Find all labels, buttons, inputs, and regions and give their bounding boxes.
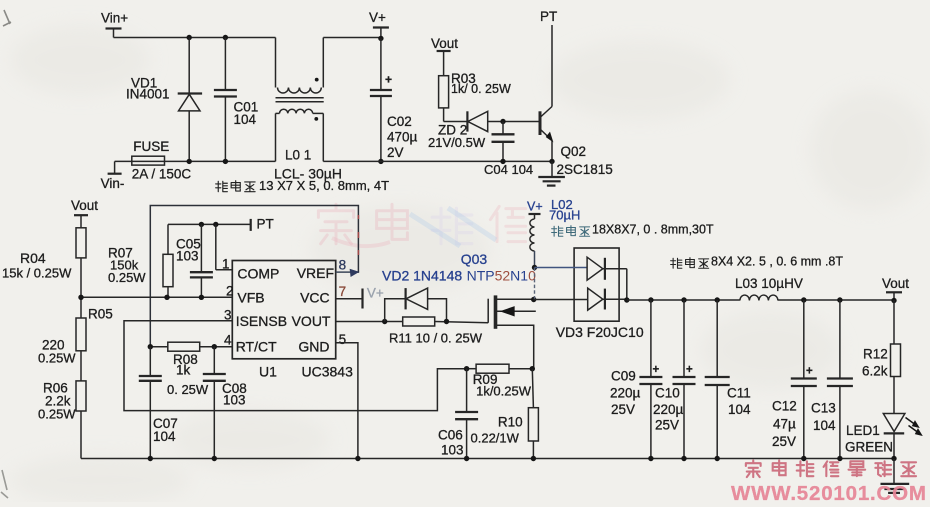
- svg-text:25V: 25V: [772, 434, 796, 449]
- inductor L02 70uH: [530, 219, 535, 268]
- svg-text:R11 10 / 0. 25W: R11 10 / 0. 25W: [389, 331, 483, 346]
- pin 1 COMP: [216, 257, 233, 272]
- terminal Vout (aux): [431, 36, 458, 76]
- ground (Q02 emitter): [538, 159, 565, 186]
- node bottom rail C08: [212, 456, 217, 461]
- svg-text:U1: U1: [259, 364, 277, 380]
- wire top input rail: [114, 37, 276, 39]
- svg-text:FUSE: FUSE: [133, 139, 169, 154]
- resistor R06 2.2k 0.25W: [38, 381, 86, 459]
- label Q03: [461, 251, 488, 267]
- resistor R08 1k 0.25W: [150, 342, 232, 397]
- svg-text:470µ: 470µ: [387, 130, 418, 145]
- svg-text:Q03: Q03: [461, 251, 488, 267]
- capacitor C01 104: [214, 38, 258, 162]
- svg-text:PT: PT: [257, 217, 274, 232]
- label NTP52N10: [467, 268, 536, 284]
- svg-text:21V/0.5W: 21V/0.5W: [428, 135, 486, 150]
- svg-text:GREEN: GREEN: [845, 440, 893, 455]
- capacitor C12 47u 25V: [772, 297, 817, 458]
- op-amp U1 UC3843 (PWM controller IC): [232, 261, 353, 380]
- wire PT/COMP top: [168, 224, 251, 254]
- fuse FUSE 2A/150C: [132, 139, 192, 182]
- wire VFB row: [81, 296, 232, 298]
- svg-text:8X4 X2. 5 , 0. 6 mm .8T: 8X4 X2. 5 , 0. 6 mm .8T: [711, 255, 843, 269]
- scan artifact bottom-left: [1, 470, 8, 498]
- node gate drive left: [382, 319, 387, 324]
- resistor R05 220 0.25W: [38, 307, 113, 381]
- svg-text:V+: V+: [527, 200, 543, 214]
- node C02 top: [378, 36, 383, 41]
- node C05 bottom: [199, 295, 204, 300]
- wire bottom input rail (left of L01): [115, 160, 276, 162]
- svg-text:L0 1: L0 1: [285, 148, 311, 163]
- capacitor C08 103: [203, 347, 247, 459]
- svg-text:V+: V+: [369, 10, 386, 25]
- svg-text:220µ: 220µ: [610, 386, 641, 401]
- node bottom rail C12: [801, 456, 806, 461]
- svg-text:4: 4: [224, 333, 232, 348]
- watermark (bottom right): [731, 460, 927, 505]
- svg-text:0.25W: 0.25W: [38, 407, 76, 422]
- svg-text:Vin+: Vin+: [101, 11, 128, 26]
- wire bottom input rail (right of L01): [323, 160, 552, 162]
- svg-text:Vout: Vout: [882, 276, 909, 291]
- node C01 bottom: [223, 159, 228, 164]
- svg-text:8: 8: [339, 258, 347, 273]
- wire drain to L02: [534, 268, 536, 300]
- svg-text:5: 5: [339, 332, 347, 347]
- svg-text:VD2 1N4148: VD2 1N4148: [382, 268, 462, 284]
- pin 8 VREF: [336, 258, 352, 273]
- node bottom rail C07: [148, 456, 153, 461]
- node Q03 drain: [531, 297, 536, 302]
- node bottom rail C13: [837, 456, 842, 461]
- terminal V+ (top): [369, 10, 389, 38]
- wire VOUT gate drive: [336, 322, 489, 323]
- capacitor C06 103: [438, 369, 478, 459]
- node bottom rail LED1: [891, 456, 896, 461]
- label VD2 1N4148: [382, 268, 462, 284]
- terminal Vin+: [101, 11, 128, 38]
- node COMP drop: [213, 222, 218, 227]
- svg-text:WWW.520101.COM: WWW.520101.COM: [731, 482, 927, 502]
- node C05 top: [199, 222, 204, 227]
- svg-text:0.22/1W: 0.22/1W: [471, 431, 520, 446]
- svg-text:C06: C06: [438, 428, 463, 443]
- transformer L01 (common-mode choke): [274, 38, 342, 182]
- label L02: [549, 197, 580, 223]
- svg-text:1k: 1k: [176, 363, 191, 378]
- capacitor C09 220u 25V: [610, 297, 662, 458]
- resistor R07 150k 0.25W: [108, 246, 173, 298]
- resistor R11 10/0.25W: [389, 317, 483, 346]
- pin 7 VCC: [339, 284, 347, 299]
- svg-text:13 X7 X 5, 0. 8mm, 4T: 13 X7 X 5, 0. 8mm, 4T: [259, 178, 389, 193]
- svg-text:VFB: VFB: [237, 290, 264, 306]
- svg-text:2SC1815: 2SC1815: [557, 162, 613, 177]
- svg-text:2V: 2V: [387, 145, 404, 160]
- svg-text:0.25W: 0.25W: [108, 270, 146, 285]
- wire top rail right segment: [323, 37, 381, 39]
- svg-text:COMP: COMP: [237, 266, 279, 282]
- label core note L02: [552, 223, 714, 237]
- node VD1 bottom: [187, 159, 192, 164]
- ground (output): [881, 459, 910, 493]
- svg-text:6.2k: 6.2k: [862, 364, 888, 379]
- svg-text:UC3843: UC3843: [302, 364, 354, 380]
- svg-text:R10: R10: [498, 415, 523, 430]
- node R08 right (RT/CT): [212, 344, 217, 349]
- pin 4 RT/CT: [224, 333, 232, 348]
- wire COMP drop: [215, 224, 217, 269]
- svg-text:R04: R04: [20, 250, 46, 266]
- svg-text:VREF: VREF: [297, 265, 334, 281]
- svg-text:Vin-: Vin-: [101, 176, 125, 191]
- scan artifact top-left: [3, 10, 11, 26]
- svg-text:R05: R05: [88, 307, 113, 322]
- svg-text:+: +: [806, 366, 813, 378]
- svg-text:+: +: [686, 364, 693, 376]
- node ZD2/C04/Q02 base: [500, 119, 505, 124]
- wire GND pin5 drop: [336, 343, 358, 459]
- svg-text:1k/0.25W: 1k/0.25W: [476, 384, 532, 399]
- svg-text:104: 104: [153, 429, 176, 444]
- capacitor C13 104: [811, 297, 853, 458]
- capacitor C11 104: [705, 297, 751, 458]
- svg-text:+: +: [385, 73, 392, 87]
- svg-text:VCC: VCC: [300, 290, 330, 306]
- svg-text:70µH: 70µH: [549, 208, 580, 223]
- watermark (center, faint): [318, 204, 525, 246]
- diode VD3 F20JC10 (dual): [534, 248, 627, 321]
- svg-text:V+: V+: [367, 286, 384, 301]
- capacitor C07 104: [139, 347, 178, 459]
- svg-text:104: 104: [728, 402, 751, 417]
- terminal V+ (L02): [527, 200, 543, 220]
- node R09 left / C06: [464, 366, 469, 371]
- svg-text:NTP52N10: NTP52N10: [467, 268, 536, 284]
- wire output rail (left of L03): [627, 299, 740, 301]
- svg-text:R12: R12: [863, 347, 888, 362]
- svg-text:2A / 150C: 2A / 150C: [132, 167, 192, 182]
- node bottom rail R10: [531, 456, 536, 461]
- wire output rail (right of L03): [778, 299, 894, 301]
- svg-text:1k/ 0. 25W: 1k/ 0. 25W: [451, 82, 511, 96]
- node C01 top: [223, 35, 228, 40]
- node R07 bottom: [164, 295, 169, 300]
- svg-text:GND: GND: [298, 339, 329, 355]
- node VD3 cathode: [624, 297, 629, 302]
- svg-text:C13: C13: [811, 401, 836, 416]
- resistor R03 1k/0.25W: [439, 71, 511, 122]
- svg-text:VOUT: VOUT: [292, 313, 331, 329]
- svg-text:C12: C12: [772, 399, 797, 414]
- svg-text:47µ: 47µ: [773, 417, 796, 432]
- svg-text:C04 104: C04 104: [484, 162, 533, 177]
- terminal PT (top): [540, 9, 557, 24]
- svg-text:ISENSB: ISENSB: [236, 313, 287, 329]
- capacitor C04 104: [484, 122, 533, 178]
- svg-text:25V: 25V: [611, 402, 635, 417]
- svg-text:25V: 25V: [655, 418, 679, 433]
- svg-text:LED1: LED1: [846, 423, 880, 438]
- svg-text:PT: PT: [540, 9, 557, 24]
- terminal Vout (feedback): [71, 198, 98, 228]
- diode VD1 IN4001: [126, 38, 202, 162]
- node bottom rail GND pin5: [355, 456, 360, 461]
- svg-text:103: 103: [176, 249, 199, 264]
- label core note L03: [671, 255, 844, 269]
- label core note L01: [216, 178, 389, 193]
- svg-text:220µ: 220µ: [653, 402, 684, 417]
- node bottom rail C11: [715, 456, 720, 461]
- diode VD2 1N4148: [385, 288, 447, 321]
- node R11 right: [444, 319, 449, 324]
- resistor R04 15k/0.25W: [2, 228, 86, 318]
- svg-text:C02: C02: [387, 114, 412, 129]
- resistor R10 0.22/1W: [471, 369, 539, 459]
- svg-text:C10: C10: [655, 386, 680, 401]
- zener diode ZD2 21V/0.5W: [428, 111, 539, 150]
- transistor Q02 2SC1815: [540, 25, 613, 177]
- svg-text:RT/CT: RT/CT: [236, 339, 277, 355]
- resistor R09 1k/0.25W: [467, 364, 533, 398]
- LED LED1 GREEN: [845, 414, 921, 459]
- svg-text:0.25W: 0.25W: [38, 351, 76, 366]
- svg-text:104: 104: [234, 112, 257, 127]
- svg-text:2: 2: [226, 284, 234, 299]
- svg-text:C09: C09: [611, 369, 636, 384]
- transistor Q03 NTP52N10 (MOSFET): [488, 295, 536, 368]
- node bottom rail C06: [464, 456, 469, 461]
- node R08 left (VREF): [148, 344, 153, 349]
- capacitor C10 220u 25V: [653, 297, 696, 458]
- svg-text:Vout: Vout: [431, 36, 458, 51]
- svg-text:15k / 0.25W: 15k / 0.25W: [2, 266, 72, 281]
- node bottom rail C09: [648, 456, 653, 461]
- svg-text:Vout: Vout: [71, 198, 98, 213]
- pin 3 ISENSB: [224, 308, 232, 323]
- terminal PT (COMP): [251, 217, 274, 232]
- label VD3 F20JC10: [556, 324, 644, 340]
- svg-text:VD3 F20JC10: VD3 F20JC10: [556, 324, 644, 340]
- node R09 right / R10 top: [530, 366, 535, 371]
- pin 2 VFB: [226, 284, 234, 299]
- wire ISENSB loop: [124, 321, 467, 411]
- resistor R12 6.2k: [862, 300, 901, 414]
- inductor L03 10uHV: [735, 276, 803, 301]
- terminal V+ (VCC): [363, 286, 384, 309]
- svg-text:103: 103: [441, 443, 464, 458]
- svg-text:Q02: Q02: [561, 144, 587, 159]
- node VD1 top: [187, 35, 192, 40]
- svg-text:104: 104: [813, 418, 836, 433]
- svg-text:0. 25W: 0. 25W: [167, 382, 209, 397]
- terminal Vout (output): [882, 276, 909, 303]
- wire bottom ground rail: [81, 458, 894, 460]
- svg-text:C11: C11: [727, 386, 751, 401]
- node L02/VD3 anode: [532, 265, 537, 270]
- wire VREF loop (pin 8 to R08): [150, 206, 358, 347]
- scan mottling: [0, 0, 1, 1]
- node bottom rail C10: [681, 456, 686, 461]
- node VFB divider: [78, 295, 83, 300]
- wire VCC pin7: [336, 298, 362, 300]
- capacitor C05 103: [176, 224, 213, 297]
- svg-text:103: 103: [223, 393, 246, 408]
- terminal Vin-: [101, 161, 125, 191]
- pin 5 GND: [339, 332, 347, 347]
- svg-text:L03 10µHV: L03 10µHV: [735, 276, 803, 291]
- svg-text:+: +: [653, 364, 660, 376]
- svg-text:7: 7: [339, 284, 347, 299]
- svg-text:IN4001: IN4001: [126, 87, 170, 102]
- svg-text:18X8X7, 0 . 8mm,30T: 18X8X7, 0 . 8mm,30T: [592, 223, 714, 237]
- capacitor C02 470u 2V: [370, 38, 418, 164]
